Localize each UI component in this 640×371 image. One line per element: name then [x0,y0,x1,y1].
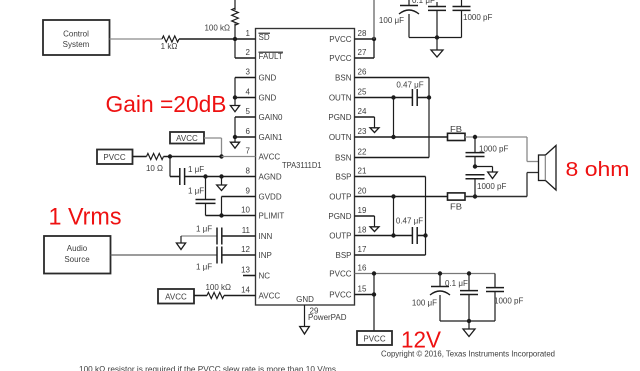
wire node to pin 2 FAULT [234,39,236,58]
svg-text:7: 7 [246,147,251,156]
svg-text:14: 14 [241,286,250,295]
node OUTP a [391,194,395,198]
svg-text:1000 pF: 1000 pF [463,13,492,22]
svg-text:100 kΩ: 100 kΩ [204,24,230,33]
wire pin 3 GND [235,77,256,79]
capacitor C8 1000pF snubber bottom [466,175,485,179]
svg-text:BSN: BSN [335,74,352,83]
capacitor C7 1000pF snubber top [474,137,476,153]
svg-text:AVCC: AVCC [259,153,281,162]
svg-text:BSP: BSP [335,173,351,182]
node OUTP b [391,233,395,237]
svg-text:100 μF: 100 μF [412,299,437,308]
svg-text:6: 6 [246,127,251,136]
wire PowerPAD [304,305,306,327]
wire audio to C4 [111,254,218,256]
svg-text:15: 15 [358,285,367,294]
svg-text:1000 pF: 1000 pF [479,145,508,154]
wire BSN loop [428,78,430,158]
svg-text:13: 13 [241,266,250,275]
svg-text:10 Ω: 10 Ω [146,164,163,173]
wire bottom rail [440,320,495,322]
ferrite bead FB1 [448,133,466,140]
node AGND a [203,174,207,178]
audio source block [44,236,111,274]
svg-text:AVCC: AVCC [165,293,187,302]
svg-text:4: 4 [246,88,251,97]
svg-text:GVDD: GVDD [259,193,282,202]
capacitor C13 0.1uF top [436,2,438,7]
node PVCC top [372,37,376,41]
node bootstrap N right [427,95,431,99]
ground PGND top [370,117,379,133]
svg-text:Copyright © 2016, Texas Instru: Copyright © 2016, Texas Instruments Inco… [381,350,555,359]
svg-text:GAIN1: GAIN1 [259,133,284,142]
svg-text:GND: GND [259,74,277,83]
svg-text:1 μF: 1 μF [188,187,204,196]
svg-text:AGND: AGND [259,173,282,182]
capacitor C9 100uF bottom [439,274,441,287]
svg-text:PGND: PGND [328,212,351,221]
svg-text:2: 2 [246,48,251,57]
node AGND b [219,174,223,178]
wire to pin 7 AVCC [222,156,256,158]
ground PGND bottom [370,216,379,232]
wire pin 16 PVCC [355,273,496,275]
svg-text:18: 18 [358,226,367,235]
svg-text:0.1 μF: 0.1 μF [445,279,468,288]
svg-text:17: 17 [358,245,367,254]
svg-text:23: 23 [358,127,367,136]
wire pin 22 BSN [355,157,430,159]
svg-text:Source: Source [64,255,90,264]
capacitor C6 0.47uF bootstrap P [412,227,417,244]
svg-text:24: 24 [358,107,367,116]
wire FB2 to speaker [465,196,527,198]
wire cap to pin 8 AGND [185,176,256,178]
svg-text:TPA3111D1: TPA3111D1 [282,161,322,170]
wire PVCC down [373,274,375,332]
svg-text:PowerPAD: PowerPAD [308,313,347,322]
svg-text:100 kΩ resistor is required if: 100 kΩ resistor is required if the PVCC … [79,365,336,371]
op-amp U1 TPA3111D1 body [256,29,355,306]
ground top rail [431,38,443,58]
wire pin 4 GND [235,97,256,99]
wire control to R2 [110,38,163,40]
node snubber bottom [473,194,477,198]
wire pin 18 OUTP [355,235,413,237]
svg-text:BSN: BSN [335,154,352,163]
svg-text:GND: GND [296,295,314,304]
svg-text:PVCC: PVCC [329,35,351,44]
node AVCC filter [168,154,172,158]
svg-text:FAULT: FAULT [259,52,283,61]
node OUTN a [391,95,395,99]
svg-text:BSP: BSP [335,251,351,260]
svg-text:PVCC: PVCC [329,291,351,300]
svg-text:FB: FB [450,125,462,134]
node snubber top [473,135,477,139]
svg-text:Control: Control [63,30,89,39]
wire R3 to AVCC node [164,156,222,158]
svg-text:AVCC: AVCC [259,292,281,301]
wire R2 to pin 1 [179,38,256,40]
resistor R4 100k [207,292,224,298]
wire pin 24 PGND [355,116,375,118]
node bootstrap P right [423,233,427,237]
svg-text:11: 11 [242,226,251,235]
wire pin 6 GAIN1 [235,136,256,138]
capacitor C2 1uF GVDD [205,177,207,200]
capacitor C5 0.47uF bootstrap N [412,89,417,106]
wire pin 5 GAIN0 [235,116,256,118]
node pin16 c [467,271,471,275]
ground AGND [217,177,227,191]
svg-text:PVCC: PVCC [329,270,351,279]
svg-text:Gain =20dB: Gain =20dB [106,91,227,117]
svg-text:3: 3 [246,68,251,77]
wire pin 20 OUTP [355,196,448,198]
svg-text:19: 19 [358,206,367,215]
wire pin 15 PVCC [355,294,375,296]
wire PVCC rail top [373,0,375,39]
svg-text:PVCC: PVCC [103,153,125,162]
wire pin 26 BSN [355,77,430,79]
wire BSP loop [425,177,427,256]
svg-text:OUTN: OUTN [329,94,352,103]
svg-text:INP: INP [259,251,272,260]
ground snubber [475,166,493,168]
svg-text:OUTP: OUTP [329,232,351,241]
svg-text:1 μF: 1 μF [188,165,204,174]
resistor R2 1k [162,36,179,42]
PVCC flag bottom [357,331,392,345]
svg-text:0.1 μF: 0.1 μF [412,0,435,5]
ground PowerPAD [300,327,310,335]
capacitor C12 100uF top [408,0,410,6]
svg-text:100 μF: 100 μF [379,16,404,25]
ground for pins 3-4 [230,98,239,112]
wire OUTP 20-18 [393,197,395,236]
U1 left pin labels and numbers [241,29,284,301]
svg-text:8 ohm: 8 ohm [566,159,630,181]
U1 right pin labels and numbers [328,29,367,300]
svg-text:System: System [63,40,90,49]
svg-text:Audio: Audio [67,244,88,253]
svg-text:1 kΩ: 1 kΩ [161,42,178,51]
svg-text:10: 10 [241,206,250,215]
svg-text:9: 9 [246,187,251,196]
pin 1 SD overbar [259,32,271,34]
node pin15 [372,292,376,296]
svg-text:AVCC: AVCC [176,134,198,143]
node pins 3-4 [233,95,237,99]
svg-text:16: 16 [358,264,367,273]
svg-text:GND: GND [259,94,277,103]
svg-text:0.47 μF: 0.47 μF [396,217,423,226]
svg-text:PVCC: PVCC [363,335,385,344]
svg-text:22: 22 [358,148,367,157]
ferrite bead FB2 [448,193,466,200]
capacitor C4 1uF INP [217,247,222,264]
pin 13 NC stub [243,275,256,277]
ground INN [176,236,185,250]
wire top rail [409,37,462,39]
ground bottom rail [463,321,475,337]
svg-text:28: 28 [358,29,367,38]
svg-text:1 μF: 1 μF [196,225,212,234]
capacitor C3 1uF INN [181,235,217,237]
capacitor C14 1000pF top [461,0,463,7]
svg-text:8: 8 [246,167,251,176]
node bottom rail [467,319,471,323]
capacitor C1 1uF AVCC [169,157,171,177]
svg-text:1 Vrms: 1 Vrms [49,204,122,231]
node snubber mid [473,164,477,168]
speaker LS1 8ohm [539,155,546,181]
svg-text:5: 5 [246,107,251,116]
svg-text:26: 26 [358,68,367,77]
PVCC flag left [97,150,133,165]
svg-text:SD: SD [259,33,270,42]
svg-text:21: 21 [358,167,367,176]
svg-text:PGND: PGND [328,113,351,122]
wire FB1 to speaker [465,136,527,138]
node top rail [435,35,439,39]
svg-text:12: 12 [241,245,250,254]
wire pin 21 BSP [355,176,426,178]
wire PVCC to R3 [133,156,147,158]
svg-text:OUTN: OUTN [329,133,352,142]
AVCC flag upper [170,132,204,144]
wire AVCC flag down [204,137,222,139]
resistor R3 10ohm [147,153,164,159]
svg-text:1000 pF: 1000 pF [494,297,523,306]
wire pin 28 PVCC [355,38,375,40]
svg-text:0.47 μF: 0.47 μF [396,81,423,90]
wire pin 23 OUTN [355,136,448,138]
wire AVCC to R4 [194,295,207,297]
node pin16 b [438,271,442,275]
svg-text:27: 27 [358,48,367,57]
ground for pins 5-6 [230,137,239,148]
node pin16 a [372,271,376,275]
capacitor C11 1000pF bottom [494,274,496,288]
node GVDD-PLIMIT [219,213,223,217]
capacitor C10 0.1uF bottom [468,274,470,291]
node pins 5-6 [233,135,237,139]
svg-text:PVCC: PVCC [329,54,351,63]
wire pin 27 PVCC [355,57,375,59]
svg-text:1 μF: 1 μF [196,263,212,272]
node SD junction [233,37,237,41]
svg-text:1000 pF: 1000 pF [477,182,506,191]
svg-text:100 kΩ: 100 kΩ [205,283,231,292]
wire pin 9 GVDD [222,196,256,198]
wire pin 17 BSP [355,254,426,256]
svg-text:PLIMIT: PLIMIT [259,212,285,221]
wire pin 25 OUTN [355,97,413,99]
node AVCC pin7 [219,154,223,158]
svg-text:NC: NC [259,272,271,281]
svg-text:GAIN0: GAIN0 [259,113,284,122]
svg-text:OUTP: OUTP [329,193,351,202]
node OUTN b [391,135,395,139]
svg-text:25: 25 [358,88,367,97]
control system block [43,20,110,55]
resistor R1 100k pullup [234,0,236,10]
AVCC flag lower [158,289,194,304]
wire R4 to pin 14 [224,295,256,297]
svg-text:20: 20 [358,187,367,196]
pin 2 FAULT overbar [259,51,284,53]
wire pin 10 PLIMIT [206,215,256,217]
svg-text:1: 1 [246,29,251,38]
svg-text:FB: FB [450,203,462,212]
wire OUTN 25-23 [393,98,395,138]
wire pin 19 PGND [355,215,375,217]
svg-text:INN: INN [259,232,273,241]
